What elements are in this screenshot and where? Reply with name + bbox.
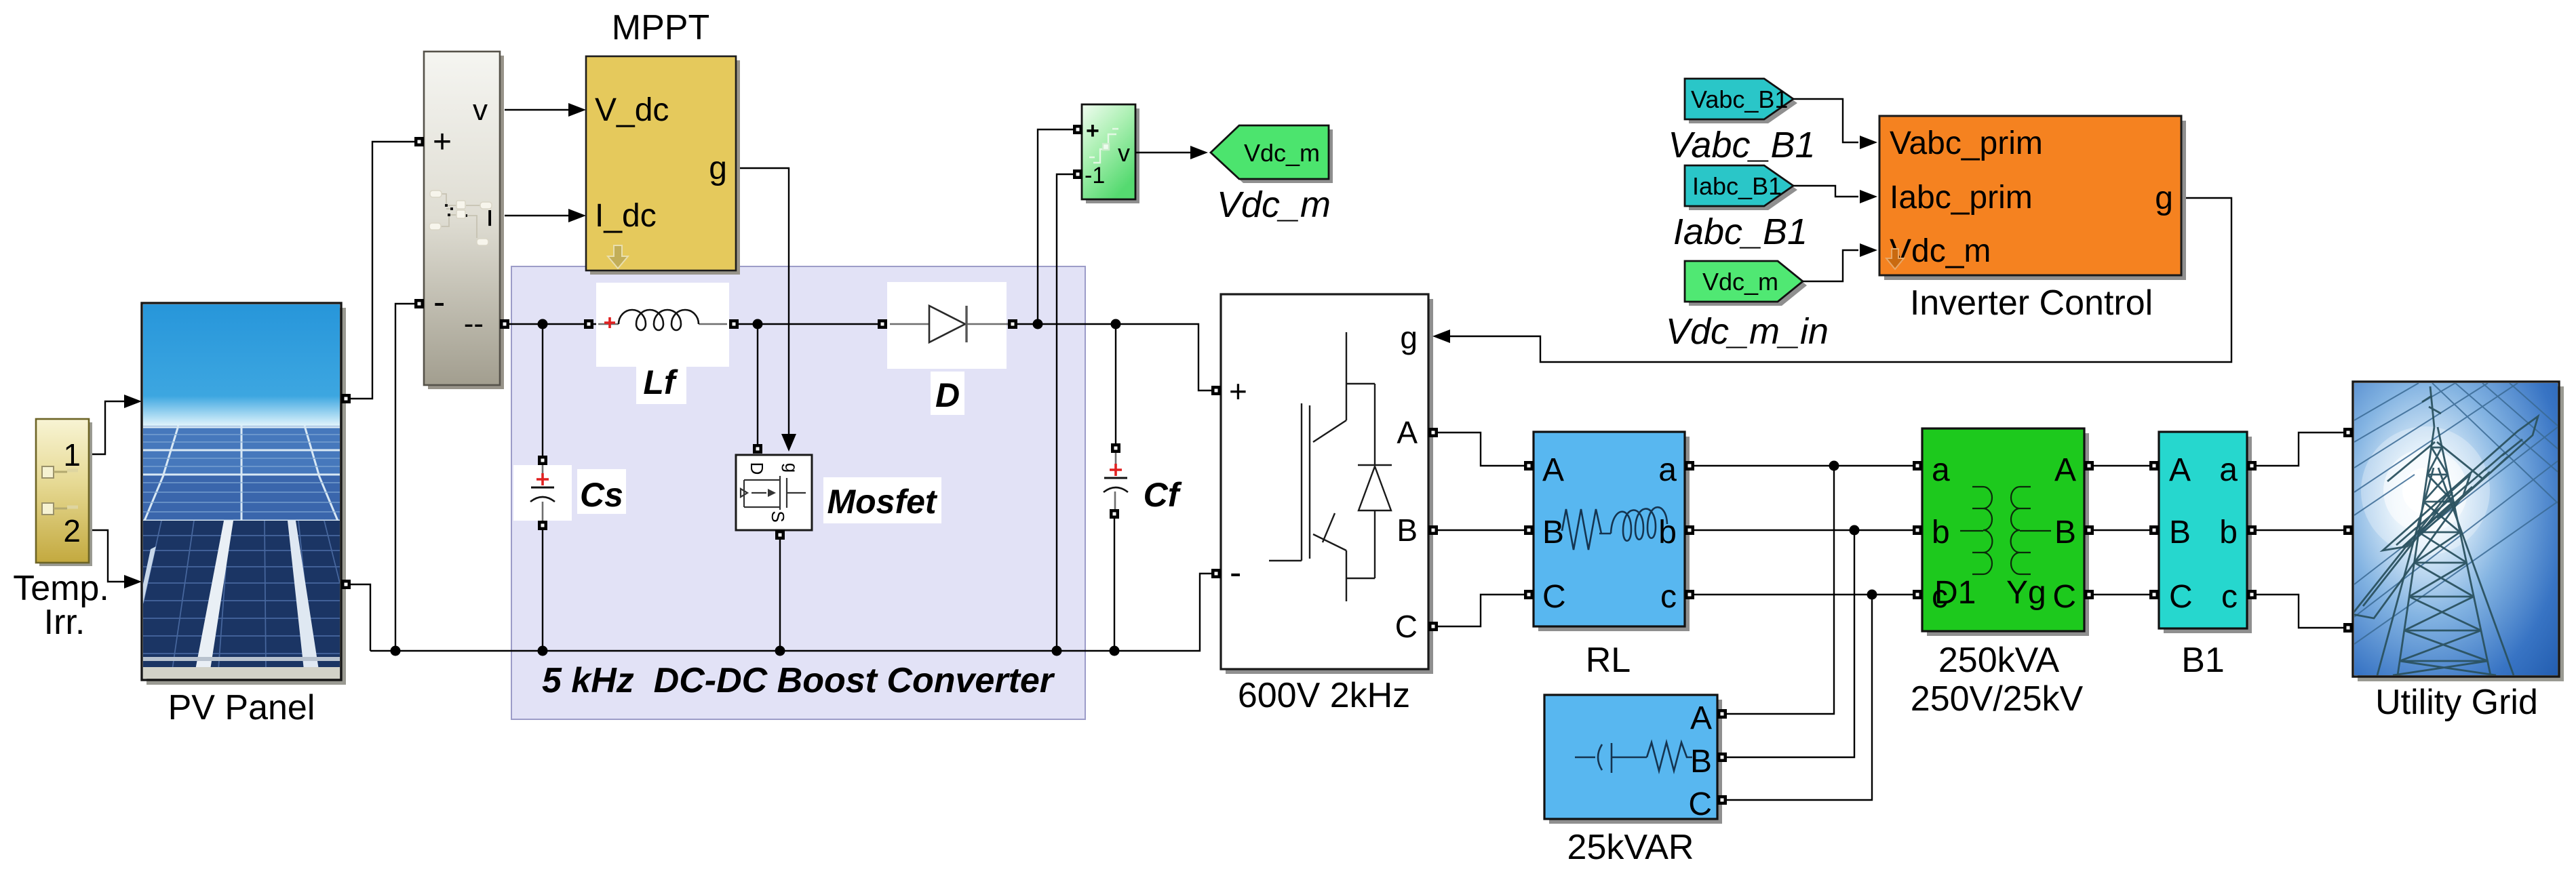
PV near array	[143, 521, 340, 670]
junction phase a	[1829, 461, 1839, 471]
svg-text:Cs: Cs	[580, 476, 623, 514]
junction phase c	[1867, 590, 1877, 600]
svg-text:2: 2	[63, 513, 81, 548]
junction top bus at Cf	[1111, 319, 1121, 329]
wire g from inverter control	[1450, 198, 2231, 362]
bus selector + input port	[414, 137, 424, 146]
transformer block shadow	[1927, 433, 2089, 636]
from tag Vdc_m_in shadow	[1689, 265, 1807, 306]
svg-text:V_dc: V_dc	[595, 92, 669, 128]
grid tower arms	[2352, 416, 2538, 618]
diode D left port	[878, 319, 887, 329]
inverter A port	[1428, 428, 1438, 437]
inverter block shadow	[1226, 299, 1433, 674]
svg-text:Vabc_B1: Vabc_B1	[1691, 85, 1788, 113]
junction phase b	[1850, 525, 1860, 536]
wire DC- riser to bus selector - port	[395, 304, 419, 651]
svg-text:-1: -1	[1085, 163, 1105, 188]
arrowhead into inverter g	[1432, 329, 1450, 343]
PV bright rails	[195, 521, 233, 670]
svg-text:c: c	[1660, 579, 1677, 615]
wire scope - sense	[1057, 174, 1073, 651]
utility grid a port	[2343, 428, 2353, 437]
B1 B port	[2149, 525, 2159, 535]
B1 a port	[2247, 461, 2257, 470]
svg-text:Vdc_m: Vdc_m	[1244, 139, 1320, 167]
svg-text:+: +	[1086, 118, 1099, 144]
MPPT block	[586, 56, 736, 270]
svg-text:A: A	[2054, 452, 2076, 488]
junction top bus at Cs	[538, 319, 548, 329]
svg-text:g: g	[781, 463, 802, 473]
svg-text:Mosfet: Mosfet	[827, 483, 937, 521]
PV output port 1	[341, 394, 351, 403]
svg-text:PV Panel: PV Panel	[168, 688, 315, 727]
capacitor Cs polarity +	[536, 473, 549, 485]
wire RL b to transformer b	[1694, 529, 1913, 531]
svg-text:--: --	[464, 307, 484, 340]
B1 b port	[2247, 525, 2257, 535]
from tag Iabc_B1	[1685, 165, 1793, 206]
grid tower silhouette	[2377, 386, 2514, 675]
diode D right port	[1008, 319, 1017, 329]
diode D patch	[887, 282, 1007, 369]
svg-text:b: b	[2219, 515, 2238, 550]
svg-text:Vdc_m: Vdc_m	[1217, 184, 1331, 225]
svg-text:Vdc_m: Vdc_m	[1702, 268, 1778, 296]
svg-text:600V 2kHz: 600V 2kHz	[1238, 676, 1410, 715]
utility grid photo block	[2352, 383, 2558, 675]
svg-text:Lf: Lf	[643, 363, 678, 401]
PV bottom strip	[143, 667, 340, 679]
svg-text:A: A	[2169, 452, 2191, 488]
inductor Lf leads	[598, 323, 727, 325]
inverter IGBT icon	[1269, 332, 1392, 601]
grid power lines	[2354, 383, 2558, 644]
inverter B port	[1428, 525, 1438, 535]
arrowhead I_dc	[568, 209, 586, 222]
wire source2 to PV	[89, 530, 126, 582]
svg-text:-: -	[433, 283, 445, 322]
svg-text:I_dc: I_dc	[595, 198, 657, 234]
voltage measurement block shadow	[1086, 108, 1139, 203]
diode D label	[931, 372, 964, 415]
wire inverter B to RL B	[1438, 529, 1524, 531]
inductor Lf left port	[584, 319, 593, 329]
RL c port	[1685, 590, 1694, 599]
capacitor Cf body	[1115, 448, 1116, 514]
svg-text:+: +	[433, 124, 452, 160]
inverter block 600V 2kHz	[1221, 294, 1428, 669]
utility grid b port	[2343, 525, 2353, 535]
arrowhead V_dc	[568, 103, 586, 117]
svg-text:v: v	[473, 94, 488, 127]
MPPT dropdown arrow icon	[608, 245, 628, 268]
bus selector block shadow	[428, 56, 504, 389]
25kVAR B port	[1717, 753, 1727, 762]
B1 block shadow	[2164, 437, 2252, 633]
transformer 250kVA block	[1922, 428, 2084, 631]
svg-text:D1: D1	[1934, 575, 1976, 611]
svg-text:A: A	[1690, 700, 1712, 736]
transformer C port	[2084, 590, 2094, 599]
svg-text:g: g	[2155, 180, 2173, 216]
svg-text:Irr.: Irr.	[44, 603, 85, 642]
junction DC- riser	[391, 646, 401, 656]
svg-text:a: a	[1658, 452, 1677, 488]
capacitor Cf bottom port	[1110, 509, 1119, 519]
bottom DC bus wire	[370, 574, 1211, 651]
PV Panel photo block	[143, 304, 340, 679]
25kVAR block	[1544, 695, 1717, 822]
MPPT block shadow	[590, 60, 740, 275]
transformer A port	[2084, 461, 2094, 470]
from tag Vabc_B1 shadow	[1689, 83, 1797, 123]
inductor Lf patch	[596, 283, 729, 367]
svg-text:Vdc_m: Vdc_m	[1890, 233, 1991, 269]
voltage measurement + port	[1073, 125, 1082, 134]
arrowhead into PV input 2	[124, 575, 142, 588]
svg-text:5 kHz DC-DC Boost Converter: 5 kHz DC-DC Boost Converter	[542, 661, 1055, 700]
svg-text:Yg: Yg	[2006, 575, 2046, 611]
voltage measurement block	[1082, 104, 1135, 199]
wire MPPT g to mosfet gate	[736, 168, 789, 434]
svg-text:1: 1	[63, 437, 81, 473]
mosfet drain port	[753, 444, 762, 454]
svg-text:C: C	[1542, 579, 1566, 615]
arrowhead Vdc_m input	[1860, 243, 1877, 257]
boost converter area box	[511, 266, 1085, 719]
svg-text:a: a	[1932, 452, 1950, 488]
svg-text:Vabc_prim: Vabc_prim	[1890, 125, 2043, 161]
svg-text:B: B	[1397, 513, 1418, 548]
transformer b port	[1913, 525, 1922, 535]
inductor Lf right port	[729, 319, 739, 329]
RL block	[1534, 432, 1685, 626]
from tag Iabc_B1 shadow	[1689, 169, 1797, 210]
inductor Lf label	[636, 362, 686, 404]
25kVAR icon	[1575, 742, 1692, 773]
utility grid border	[2353, 382, 2559, 677]
svg-text:C: C	[1395, 609, 1418, 644]
junction top bus at mosfet drain	[753, 319, 763, 329]
capacitor Cs body	[542, 465, 544, 521]
arrowhead into PV input 1	[124, 395, 142, 408]
wire scope + sense	[1038, 129, 1073, 324]
grid sun glow	[2361, 426, 2490, 555]
svg-text:Iabc_prim: Iabc_prim	[1890, 180, 2033, 216]
capacitor Cf top port	[1111, 443, 1120, 453]
wire transformer C to B1 C	[2094, 594, 2149, 595]
inverter + port	[1211, 386, 1221, 395]
svg-text:Inverter Control: Inverter Control	[1910, 283, 2153, 323]
wire PV out1 to bus +	[351, 142, 419, 399]
wire PV out2 to DC- bus	[351, 584, 370, 651]
svg-text:C: C	[2169, 579, 2193, 615]
inverter - port	[1211, 569, 1221, 578]
RL B port	[1524, 525, 1534, 535]
junction bottom bus at Cs	[538, 646, 548, 656]
svg-text:C: C	[1688, 786, 1712, 822]
inverter control block	[1879, 116, 2181, 275]
utility grid block shadow	[2358, 386, 2564, 681]
wire v to MPPT V_dc	[505, 109, 570, 111]
inverter C port	[1428, 622, 1438, 631]
PV output port 2	[341, 580, 351, 589]
B1 c port	[2247, 590, 2257, 599]
svg-text:-: -	[1230, 553, 1241, 593]
junction bottom bus at Cf	[1110, 646, 1120, 656]
svg-text:D: D	[747, 462, 767, 475]
svg-text:B1: B1	[2181, 641, 2225, 680]
mosfet source port	[775, 530, 785, 540]
arrowhead Iabc_prim	[1860, 190, 1877, 203]
PV Panel block shadow	[147, 308, 346, 685]
inductor Lf coil	[619, 310, 699, 330]
wire source1 to PV	[89, 401, 126, 454]
svg-text:A: A	[1397, 415, 1418, 450]
capacitor Cs label	[577, 469, 626, 514]
svg-text:B: B	[1690, 744, 1712, 780]
svg-text:25kVAR: 25kVAR	[1567, 828, 1694, 867]
goto tag Vdc_m shadow	[1215, 129, 1333, 183]
capacitor Cf polarity +	[1110, 464, 1122, 476]
PV far array row	[143, 426, 340, 475]
voltage measurement - port	[1073, 169, 1082, 179]
RL A port	[1524, 461, 1534, 470]
svg-text:Cf: Cf	[1144, 476, 1182, 514]
diode D cathode bar	[965, 306, 967, 342]
wire Vdc_m_in to control	[1803, 250, 1858, 281]
svg-text:D: D	[935, 376, 960, 414]
bus selector -- output port	[500, 319, 509, 329]
B1 C port	[2149, 590, 2159, 599]
svg-text:MPPT: MPPT	[612, 8, 709, 47]
transformer B port	[2084, 525, 2094, 535]
svg-text:B: B	[2054, 515, 2076, 550]
svg-text:c: c	[2221, 579, 2238, 615]
utility grid c port	[2343, 623, 2353, 633]
wire B1 a to grid	[2257, 433, 2343, 466]
svg-text:b: b	[1932, 515, 1950, 550]
wire Vabc_B1 to control	[1793, 99, 1858, 142]
svg-text:v: v	[1118, 139, 1130, 167]
wire scope v to goto tag	[1135, 152, 1192, 153]
inverter control block shadow	[1884, 121, 2186, 280]
arrowhead into goto tag	[1190, 146, 1208, 159]
svg-text:Iabc_B1: Iabc_B1	[1692, 172, 1782, 200]
source block Temp Irr shadow	[39, 422, 92, 566]
svg-text:RL: RL	[1586, 641, 1631, 680]
inductor Lf polarity +	[604, 317, 615, 328]
wire RL c to transformer c	[1694, 594, 1913, 595]
svg-text:g: g	[709, 151, 727, 186]
svg-text:Vabc_B1: Vabc_B1	[1668, 125, 1815, 165]
svg-text:A: A	[1542, 452, 1564, 488]
RL b port	[1685, 525, 1694, 535]
svg-text:B: B	[1542, 515, 1564, 550]
wire 25kVAR B tap	[1727, 530, 1854, 757]
mosfet source wire	[779, 540, 781, 651]
from tag Vdc_m_in	[1685, 261, 1803, 302]
RL block shadow	[1538, 437, 1690, 631]
capacitor Cs bottom port	[538, 521, 547, 530]
transformer c port	[1913, 590, 1922, 599]
junction bottom bus at scope -	[1052, 646, 1062, 656]
B1 A port	[2149, 461, 2159, 470]
wire Iabc_B1 to control	[1793, 186, 1858, 197]
25kVAR block shadow	[1549, 700, 1722, 824]
svg-text:Vdc_m_in: Vdc_m_in	[1666, 311, 1829, 352]
arrowhead into mosfet gate	[781, 434, 796, 452]
bus selector - input port	[414, 299, 424, 308]
svg-text:C: C	[2052, 579, 2076, 615]
svg-text:a: a	[2219, 452, 2238, 488]
wire inverter C to RL C	[1438, 595, 1524, 626]
svg-text:S: S	[768, 510, 788, 522]
goto tag Vdc_m	[1211, 125, 1329, 179]
svg-text:g: g	[1400, 320, 1418, 355]
source block Temp Irr	[36, 419, 89, 563]
25kVAR C port	[1717, 795, 1727, 805]
mosfet Q1 block	[736, 455, 812, 530]
capacitor Cf branch wires	[1114, 324, 1116, 651]
PV Panel border	[142, 303, 341, 680]
svg-text:Utility Grid: Utility Grid	[2375, 683, 2538, 722]
svg-text:250V/25kV: 250V/25kV	[1911, 679, 2084, 719]
wire 25kVAR A tap	[1727, 466, 1834, 714]
diode D triangle	[929, 306, 965, 342]
mosfet drain wire	[757, 324, 758, 444]
junction bottom bus at mosfet source	[775, 646, 785, 656]
from tag Vabc_B1	[1685, 79, 1793, 119]
junction top bus at scope +	[1033, 319, 1043, 329]
B1 block	[2159, 432, 2247, 628]
inverter control dropdown arrow icon	[1886, 249, 1904, 269]
transformer winding icon	[1960, 487, 2051, 574]
svg-text:Iabc_B1: Iabc_B1	[1673, 212, 1808, 252]
capacitor Cs patch	[513, 465, 572, 521]
wire 25kVAR C tap	[1727, 595, 1872, 800]
wire transformer B to B1 B	[2094, 529, 2149, 531]
mosfet label	[823, 477, 941, 523]
arrowhead Vabc_prim	[1860, 136, 1877, 149]
wire transformer A to B1 A	[2094, 465, 2149, 466]
wire B1 c to grid	[2257, 595, 2343, 628]
capacitor Cs top port	[538, 456, 547, 465]
RL C port	[1524, 590, 1534, 599]
capacitor Cs branch wires	[542, 324, 543, 651]
svg-text:B: B	[2169, 515, 2191, 550]
svg-text:+: +	[1229, 374, 1247, 409]
25kVAR A port	[1717, 709, 1727, 719]
transformer a port	[1913, 461, 1922, 470]
diode D leads	[890, 323, 1010, 325]
bus selector inner icon	[441, 194, 482, 238]
bus selector measurement block	[424, 52, 500, 385]
wire B1 b to grid	[2257, 529, 2343, 531]
wire RL a to transformer a	[1694, 465, 1913, 466]
top DC bus wire	[507, 324, 1211, 390]
wire inverter A to RL A	[1438, 433, 1524, 466]
RL icon	[1562, 507, 1667, 550]
RL a port	[1685, 461, 1694, 470]
svg-text:250kVA: 250kVA	[1938, 641, 2060, 680]
wire i to MPPT I_dc	[505, 215, 570, 216]
